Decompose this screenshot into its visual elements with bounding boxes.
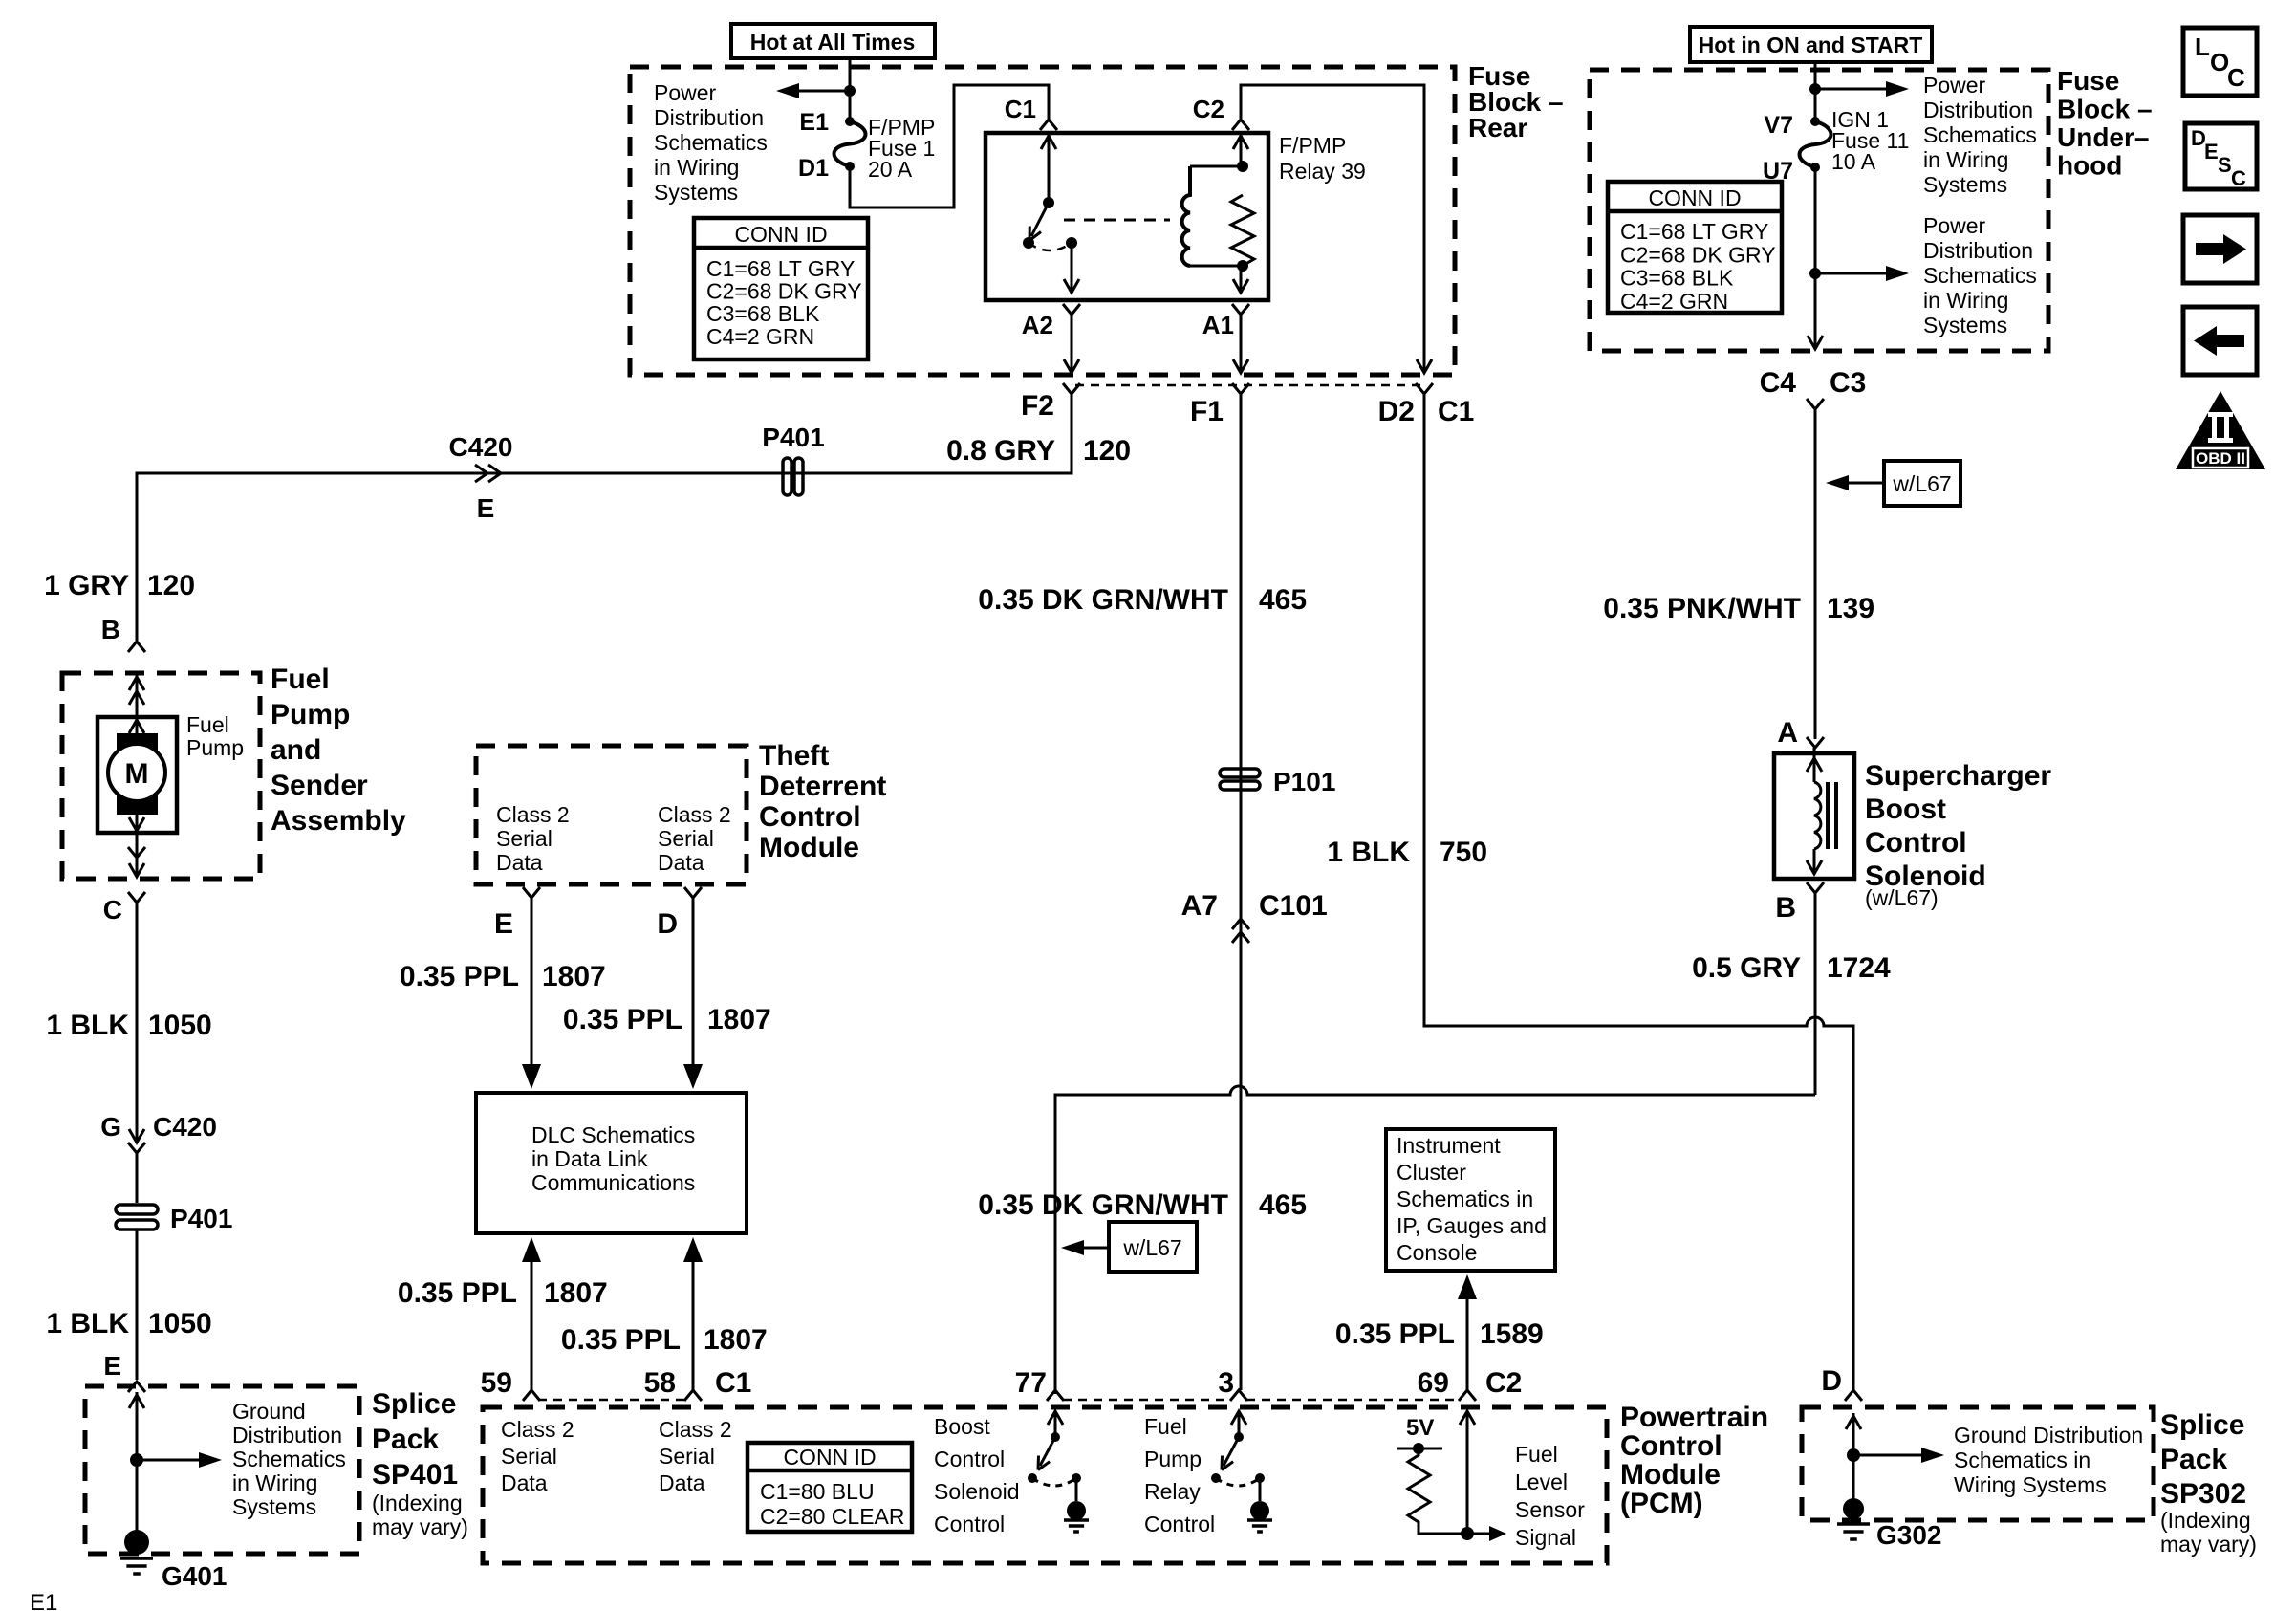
svg-text:Serial: Serial [659,1444,715,1469]
relay A1 pin wire [1240,266,1243,291]
wire into pump with double arrows [136,673,139,717]
svg-text:C3: C3 [1830,367,1866,399]
pin E chevron into splice pack SP401 [128,1382,145,1392]
svg-text:(w/L67): (w/L67) [1865,885,1939,910]
svg-text:C1: C1 [715,1367,751,1399]
relay C2 pin wire [1240,133,1243,166]
svg-text:0.35 PPL: 0.35 PPL [1335,1318,1455,1350]
svg-text:1050: 1050 [148,1308,212,1339]
splice pack SP401 dashed box [85,1386,359,1554]
svg-text:1 BLK: 1 BLK [1327,837,1410,868]
svg-text:Systems: Systems [232,1494,316,1519]
relay switch arm [1031,203,1049,236]
arrows exiting fuse block bottom [1064,359,1079,373]
svg-text:Data: Data [658,850,704,875]
svg-text:0.35 PPL: 0.35 PPL [561,1324,681,1356]
svg-text:Boost: Boost [1865,794,1946,825]
icon: arrow right [2183,215,2257,283]
fuel level signal node and arrow [1466,1411,1469,1534]
fuel pump motor box [97,717,177,833]
fuse block underhood dashed box [1590,70,2048,351]
svg-text:Deterrent: Deterrent [759,771,886,802]
svg-text:Pump: Pump [1144,1447,1202,1471]
relay switch: A2 pin wire [1071,243,1073,291]
wire: fuse D1 to relay C1 [850,85,1049,207]
svg-text:139: 139 [1827,593,1874,624]
svg-text:(PCM): (PCM) [1620,1488,1703,1519]
svg-text:Systems: Systems [1923,172,2007,197]
svg-text:Boost: Boost [934,1414,990,1439]
node: junction dot (upper) [1809,83,1821,95]
fuel pump and sender assembly dashed box [62,673,260,879]
svg-text:Console: Console [1397,1240,1477,1265]
svg-text:and: and [271,734,321,766]
svg-text:Fuel: Fuel [271,664,330,695]
svg-text:58: 58 [644,1367,676,1399]
svg-text:V7: V7 [1764,112,1793,139]
svg-text:C1=80 BLU: C1=80 BLU [760,1479,875,1504]
svg-text:C420: C420 [153,1112,217,1142]
relay switch contact dot [1066,237,1077,249]
wire: feed from Hot at All Times into fuse block [849,58,852,121]
svg-text:Class 2: Class 2 [658,802,731,827]
PCM pins 59 58 C1 chevrons [523,1390,540,1401]
svg-text:120: 120 [1083,435,1131,467]
svg-text:Under–: Under– [2057,122,2149,152]
svg-text:in Wiring: in Wiring [1923,288,2008,313]
svg-text:A2: A2 [1022,311,1053,339]
relay dashed actuation link [1064,219,1170,222]
arrow: to ground distribution schematics (SP302) [1853,1454,1927,1457]
relay switch: C1 pin wire [1048,133,1051,203]
SP302 junction dot [1847,1448,1860,1462]
svg-text:Assembly: Assembly [271,805,406,837]
svg-text:C4=2 GRN: C4=2 GRN [1620,289,1728,314]
svg-text:750: 750 [1440,837,1487,868]
svg-text:10 A: 10 A [1831,149,1876,174]
svg-text:Fuel: Fuel [1144,1414,1187,1439]
icon: OBD II triangle [2176,391,2265,469]
label box: Hot in ON and START [1690,27,1932,62]
svg-text:Module: Module [1620,1459,1721,1491]
svg-text:Distribution: Distribution [1923,98,2033,122]
svg-text:hood: hood [2057,151,2122,181]
svg-text:Rear: Rear [1468,113,1527,142]
connector C420 pass-through on horizontal run [475,465,487,482]
svg-text:20 A: 20 A [868,157,913,182]
svg-text:w/L67: w/L67 [1892,471,1951,496]
svg-text:Distribution: Distribution [654,105,764,130]
svg-text:Schematics: Schematics [1923,122,2037,147]
svg-text:Power: Power [1923,213,1986,238]
svg-text:Serial: Serial [501,1444,557,1469]
svg-text:Schematics: Schematics [654,130,768,155]
svg-text:SP302: SP302 [2160,1478,2246,1510]
svg-text:Hot at All Times: Hot at All Times [750,30,916,54]
svg-text:Systems: Systems [654,180,738,205]
svg-text:E: E [2204,140,2219,163]
icon: LOC [2183,28,2257,96]
svg-text:C3=68 BLK: C3=68 BLK [706,301,820,326]
svg-text:Splice: Splice [2160,1409,2244,1441]
svg-text:1 BLK: 1 BLK [46,1308,129,1339]
splice pack SP302 dashed box [1802,1407,2154,1520]
svg-text:0.35 PPL: 0.35 PPL [398,1277,517,1309]
svg-text:Hot in ON and START: Hot in ON and START [1699,33,1923,57]
svg-text:Ground Distribution: Ground Distribution [1954,1423,2143,1448]
svg-text:1050: 1050 [148,1010,212,1041]
svg-text:L: L [2195,33,2210,61]
svg-text:Block –: Block – [2057,95,2153,124]
svg-text:Distribution: Distribution [1923,238,2033,263]
wire: fuse U7 down through block [1814,167,1817,347]
svg-text:3: 3 [1218,1367,1234,1399]
svg-text:Solenoid: Solenoid [934,1479,1020,1504]
wire: class 2 serial data D to DLC [692,898,695,1072]
powertrain control module dashed box [483,1407,1607,1563]
relay coil [1182,166,1190,266]
svg-text:1 BLK: 1 BLK [46,1010,129,1041]
svg-text:Class 2: Class 2 [659,1417,732,1442]
svg-text:A1: A1 [1202,311,1234,339]
svg-text:Control: Control [1620,1430,1722,1462]
svg-text:Distribution: Distribution [232,1423,342,1448]
wire: DLC to PCM pin 58 [683,1237,703,1262]
svg-text:Control: Control [934,1512,1005,1536]
node: junction dot (lower) [1809,268,1821,279]
wire: 0.8 GRY 120 from F2 to fuel pump B [137,394,1072,642]
inline connector P401 (vertical run) [116,1205,158,1214]
svg-text:Systems: Systems [1923,313,2007,337]
icon: DESC [2185,123,2257,189]
wire: relay C2 feed to D2 column [1241,85,1424,371]
svg-text:C2: C2 [1485,1367,1522,1399]
SP401 junction dot [130,1453,143,1467]
svg-text:Pump: Pump [186,735,244,760]
relay coil nodes [1237,161,1248,172]
svg-text:0.35 PNK/WHT: 0.35 PNK/WHT [1603,593,1801,624]
svg-text:1807: 1807 [542,961,606,992]
arrow: reference to Power Distribution Schematics (lower) [1815,272,1897,275]
instrument cluster schematics box [1386,1129,1555,1271]
svg-text:D1: D1 [798,155,829,182]
svg-text:0.35 DK GRN/WHT: 0.35 DK GRN/WHT [978,1189,1228,1221]
svg-text:P101: P101 [1273,767,1335,796]
node: junction dot on feed [844,85,856,97]
svg-text:Level: Level [1515,1469,1568,1494]
relay pin A2 chevron and label [1063,304,1080,315]
solenoid coil and core [1813,748,1816,782]
svg-text:A7: A7 [1181,890,1218,922]
svg-text:in Wiring: in Wiring [654,155,739,180]
svg-text:G401: G401 [162,1561,227,1591]
svg-text:Sensor: Sensor [1515,1497,1585,1522]
pin A chevron at solenoid [1807,737,1824,748]
svg-text:465: 465 [1259,584,1307,616]
wire: 1 BLK 750 from D2/C1 to splice pack SP302 [1424,394,1853,1390]
svg-text:69: 69 [1418,1367,1449,1399]
svg-text:1 GRY: 1 GRY [44,570,129,601]
svg-text:Schematics in: Schematics in [1397,1186,1533,1211]
svg-text:Control: Control [1865,827,1967,859]
wire: ignition feed into underhood block [1814,62,1817,121]
svg-text:E: E [477,493,495,523]
annotation w/L67 (lower) [1069,1247,1109,1250]
inline connector P101 [1220,769,1260,777]
svg-text:Fuel: Fuel [1515,1442,1558,1467]
svg-text:C: C [103,895,122,925]
relay pin A1 chevron and label [1232,304,1249,315]
svg-text:C: C [2231,166,2246,190]
pin D chevron below theft box [684,887,702,898]
relay switch dashed throw arc [1029,243,1072,250]
wire below motor to pin C [136,833,139,877]
wire: 0.35 PPL 1589 from PCM pin 69 to instrument cluster [1458,1274,1477,1299]
svg-text:Communications: Communications [531,1170,695,1195]
relay switch: common dot [1043,197,1054,208]
svg-text:Schematics: Schematics [232,1447,346,1471]
svg-text:465: 465 [1259,1189,1307,1221]
svg-text:Pack: Pack [372,1424,439,1455]
fuel level sense resistor [1408,1448,1467,1534]
svg-text:1807: 1807 [704,1324,768,1356]
svg-text:E1: E1 [799,109,829,136]
annotation w/L67 (upper) [1833,482,1884,485]
5V rail [1397,1448,1442,1450]
svg-text:Signal: Signal [1515,1525,1576,1550]
svg-text:Cluster: Cluster [1397,1160,1466,1185]
svg-text:Fuel: Fuel [186,712,229,737]
wire into SP302 to ground [1852,1413,1855,1509]
svg-text:SP401: SP401 [372,1459,458,1491]
wire: 0.35 DK GRN/WHT 465 from F1 to PCM pin 3 [1240,394,1243,1390]
wire: 0.35 PNK/WHT 139 to supercharger solenoid [1814,409,1817,739]
svg-text:CONN ID: CONN ID [1648,185,1741,210]
svg-text:Serial: Serial [658,826,714,851]
svg-text:Control: Control [1144,1512,1215,1536]
svg-text:C2=68 DK GRY: C2=68 DK GRY [1620,242,1776,267]
svg-text:Pump: Pump [271,699,350,730]
svg-text:w/L67: w/L67 [1122,1235,1181,1260]
svg-text:C: C [2227,63,2245,92]
motor brushes [117,733,158,756]
pin B chevron into fuel pump assembly [128,642,145,652]
svg-text:Control: Control [759,801,861,833]
svg-text:0.35 DK GRN/WHT: 0.35 DK GRN/WHT [978,584,1228,616]
svg-text:Class 2: Class 2 [501,1417,574,1442]
svg-text:C3=68 BLK: C3=68 BLK [1620,266,1734,291]
svg-text:1807: 1807 [707,1004,771,1035]
fuse block rear dashed box [630,67,1455,375]
svg-text:Data: Data [496,850,543,875]
svg-text:D: D [1821,1365,1842,1397]
svg-text:Class 2: Class 2 [496,802,570,827]
svg-text:0.35 PPL: 0.35 PPL [400,961,519,992]
svg-text:C2: C2 [1193,95,1224,123]
PCM pin chevrons 77 3 69 [1047,1390,1064,1401]
svg-text:1724: 1724 [1827,952,1891,984]
arrow: to ground distribution schematics [137,1459,205,1462]
svg-text:Power: Power [1923,73,1986,98]
relay F/PMP Relay 39 box [986,133,1268,300]
svg-text:Relay: Relay [1144,1479,1201,1504]
svg-text:E: E [494,908,513,940]
relay coil top/bottom ties [1190,165,1243,168]
svg-text:C420: C420 [449,432,513,462]
svg-text:(Indexing: (Indexing [2160,1508,2251,1533]
svg-text:Schematics: Schematics [1923,263,2037,288]
svg-text:A: A [1777,717,1798,749]
DLC schematics box [476,1093,747,1233]
svg-text:0.8 GRY: 0.8 GRY [946,435,1055,467]
svg-text:P401: P401 [170,1204,232,1233]
label box: Hot at All Times [731,24,935,58]
svg-text:Theft: Theft [759,740,829,772]
svg-text:Instrument: Instrument [1397,1133,1501,1158]
svg-text:5V: 5V [1406,1415,1434,1441]
connector chevron C1 at relay [1040,120,1057,130]
wire into SP401 to ground [136,1392,139,1541]
svg-text:Sender: Sender [271,770,368,801]
fuel pump relay control switch [1238,1411,1241,1437]
supercharger boost control solenoid box [1774,753,1854,879]
ground G401 dot and symbol [124,1530,149,1555]
svg-text:59: 59 [481,1367,512,1399]
svg-text:77: 77 [1015,1367,1047,1399]
svg-text:may vary): may vary) [2160,1532,2257,1557]
svg-text:E: E [103,1351,121,1381]
arrow: reference to Power Distribution Schematics (upper) [1815,88,1897,91]
svg-text:Module: Module [759,832,859,863]
svg-text:S: S [2218,153,2232,177]
wire: class 2 serial data E to DLC [531,898,533,1072]
svg-text:C1=68 LT GRY: C1=68 LT GRY [1620,219,1768,244]
svg-text:G: G [100,1112,121,1142]
svg-text:may vary): may vary) [372,1514,468,1539]
fuse IGN 1 Fuse 11 10 A (terminals V7-U7) [1810,117,1820,126]
svg-text:Control: Control [934,1447,1005,1471]
svg-text:0.35 PPL: 0.35 PPL [563,1004,682,1035]
svg-text:Fuse: Fuse [2057,66,2119,96]
svg-text:Supercharger: Supercharger [1865,760,2051,792]
svg-text:D2: D2 [1378,396,1415,427]
CONN ID table (PCM) [747,1443,912,1532]
svg-text:F/PMP: F/PMP [1279,133,1346,158]
svg-text:Relay 39: Relay 39 [1279,159,1366,184]
svg-text:C1=68 LT GRY: C1=68 LT GRY [706,256,855,281]
CONN ID table (underhood) [1608,182,1782,313]
theft deterrent control module dashed box [476,746,747,884]
svg-text:Wiring Systems: Wiring Systems [1954,1472,2107,1497]
CONN ID table (fuse block rear) [694,218,868,359]
svg-text:(Indexing: (Indexing [372,1491,463,1515]
svg-text:1589: 1589 [1480,1318,1544,1350]
svg-text:in Data Link: in Data Link [531,1146,648,1171]
svg-text:Pack: Pack [2160,1444,2227,1475]
svg-text:B: B [101,615,120,644]
svg-text:Data: Data [659,1470,705,1495]
svg-text:IP, Gauges and: IP, Gauges and [1397,1213,1547,1238]
connector chevron C2 at relay [1232,120,1249,130]
svg-text:OBD II: OBD II [2196,449,2245,468]
icon: arrow left [2183,307,2257,375]
svg-text:Powertrain: Powertrain [1620,1402,1768,1433]
arrow: reference to Power Distribution Schematics [793,90,850,93]
pin D chevron into splice pack SP302 [1845,1390,1862,1401]
boost control switch [1054,1411,1057,1437]
connector row F2 F1 D2 C1 below fuse block [1075,384,1420,387]
svg-text:C4: C4 [1760,367,1797,399]
relay coil suppression resistor [1231,195,1254,266]
relay switch pivot dot [1023,237,1034,249]
svg-text:Schematics in: Schematics in [1954,1448,2090,1472]
svg-text:F2: F2 [1021,390,1054,422]
svg-text:120: 120 [147,570,195,601]
svg-text:C4=2 GRN: C4=2 GRN [706,324,814,349]
svg-text:Serial: Serial [496,826,552,851]
svg-text:D: D [657,908,678,940]
wire: DLC to PCM pin 59 [522,1237,541,1262]
svg-text:M: M [125,758,149,790]
svg-text:Power: Power [654,80,717,105]
svg-text:C101: C101 [1259,890,1328,922]
pin C chevron [128,892,145,903]
svg-text:E1: E1 [30,1590,57,1611]
svg-text:Splice: Splice [372,1388,456,1420]
svg-text:P401: P401 [762,423,824,452]
svg-text:0.5 GRY: 0.5 GRY [1692,952,1801,984]
svg-text:C2=80 CLEAR: C2=80 CLEAR [760,1504,905,1529]
chevron below motor [128,847,145,858]
wire: 0.5 GRY 1724 from B down and left to PCM pin 77 [1814,893,1817,1095]
svg-text:G302: G302 [1876,1520,1942,1550]
svg-text:Ground: Ground [232,1399,306,1424]
svg-text:in Wiring: in Wiring [232,1470,317,1495]
connector G / C420 crossing [129,1129,144,1143]
motor M circle [108,744,165,801]
ground G302 dot and symbol [1843,1498,1864,1519]
fuse F/PMP Fuse 1 20 A (terminals E1-D1) [845,117,855,126]
svg-text:Data: Data [501,1470,548,1495]
svg-text:CONN ID: CONN ID [734,222,827,247]
svg-text:DLC Schematics: DLC Schematics [531,1122,695,1147]
svg-text:in Wiring: in Wiring [1923,147,2008,172]
svg-text:1807: 1807 [544,1277,608,1309]
svg-text:C1: C1 [1438,396,1474,427]
svg-text:C2=68 DK GRY: C2=68 DK GRY [706,279,862,304]
pin B chevron below solenoid [1807,882,1824,893]
inline connector P401 (horizontal run) [783,458,791,495]
svg-text:C1: C1 [1005,95,1036,123]
motor internal arrows [136,719,139,744]
pin E chevron below theft box [523,887,540,898]
svg-text:B: B [1775,892,1796,924]
svg-text:CONN ID: CONN ID [783,1445,876,1469]
svg-text:F1: F1 [1190,396,1224,427]
